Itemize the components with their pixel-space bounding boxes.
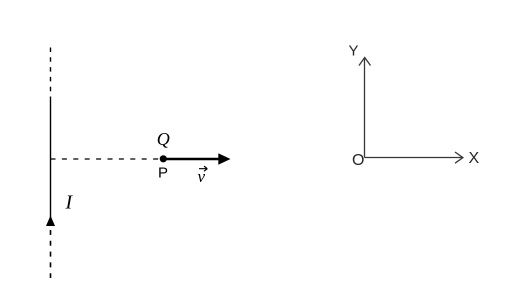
current direction arrowhead (up) bbox=[46, 216, 55, 227]
point P (dot) bbox=[160, 155, 167, 162]
svg-text:P: P bbox=[158, 165, 168, 182]
svg-text:v: v bbox=[198, 167, 206, 186]
X axis arrowhead (open) bbox=[455, 152, 463, 163]
svg-text:X: X bbox=[469, 150, 480, 167]
svg-text:Y: Y bbox=[349, 43, 359, 60]
svg-text:Q: Q bbox=[157, 129, 170, 149]
svg-text:O: O bbox=[352, 152, 364, 169]
Y axis bbox=[364, 58, 366, 158]
wire: bottom dashed extension bbox=[50, 230, 52, 278]
velocity label v with arrow accent bbox=[198, 166, 208, 186]
velocity vector arrow bbox=[166, 158, 220, 160]
Y axis arrowhead (open) bbox=[359, 58, 371, 66]
X axis bbox=[365, 157, 463, 159]
svg-text:I: I bbox=[65, 192, 74, 214]
wire: solid conductor segment bbox=[50, 97, 52, 226]
dashed perpendicular from wire to point P bbox=[51, 158, 162, 160]
wire: top dashed extension bbox=[50, 48, 52, 98]
